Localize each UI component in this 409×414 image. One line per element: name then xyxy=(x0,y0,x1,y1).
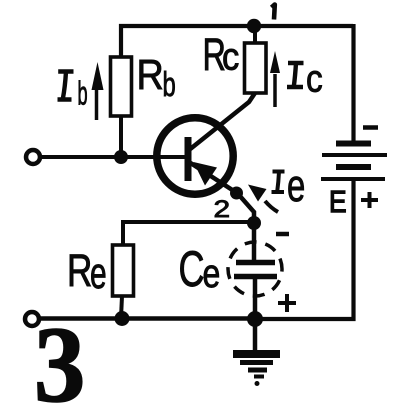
node 2 dot xyxy=(230,187,243,200)
svg-text:c: c xyxy=(222,35,239,78)
svg-text:e: e xyxy=(203,251,221,296)
svg-text:e: e xyxy=(90,248,107,297)
terminal input base xyxy=(26,150,40,164)
svg-text:R: R xyxy=(67,245,92,296)
capacitor Ce plate top xyxy=(236,260,275,266)
arrow Ib xyxy=(92,62,104,120)
wire Re bottom xyxy=(121,296,122,318)
label plus capacitor xyxy=(278,294,296,312)
svg-text:E: E xyxy=(329,185,347,219)
battery E plate long 1 xyxy=(322,153,387,157)
terminal input bottom xyxy=(25,312,39,326)
transistor Q1 circle xyxy=(157,118,233,194)
emitter arrowhead xyxy=(194,162,218,186)
label Ce xyxy=(179,242,221,297)
capacitor Ce plate bottom xyxy=(234,274,277,280)
resistor Re xyxy=(113,245,134,296)
label minus battery xyxy=(363,125,378,130)
transistor base bar xyxy=(185,137,192,181)
label plus battery xyxy=(361,192,378,208)
label Ic xyxy=(287,58,323,100)
ground bar 2 xyxy=(240,360,273,365)
resistor Rc xyxy=(245,43,267,93)
wire collector xyxy=(189,93,255,150)
battery E plate short 2 xyxy=(336,164,371,170)
arrow Ie curved xyxy=(248,185,278,213)
wire base input xyxy=(40,155,186,159)
wire top rail xyxy=(121,26,353,57)
wire Rc top xyxy=(253,26,257,43)
label Ie xyxy=(272,161,306,211)
svg-text:b: b xyxy=(163,66,176,104)
svg-text:e: e xyxy=(287,161,305,211)
ground stem xyxy=(253,319,258,351)
resistor Rb xyxy=(111,57,132,116)
wire Re top xyxy=(123,222,254,247)
wire capacitor top xyxy=(252,223,257,260)
junction dot emitter xyxy=(247,216,261,230)
junction dot ground xyxy=(247,311,263,327)
arrow Ic xyxy=(270,51,280,107)
wire capacitor bottom xyxy=(253,279,258,319)
svg-text:2: 2 xyxy=(214,195,231,223)
label minus capacitor xyxy=(276,232,289,237)
ground bar 3 xyxy=(248,368,267,373)
node 1 dot xyxy=(247,19,261,33)
label Re xyxy=(67,245,107,298)
svg-text:R: R xyxy=(137,52,164,98)
svg-text:c: c xyxy=(306,58,323,100)
wire emitter to junction xyxy=(239,195,254,219)
label node 1 xyxy=(272,5,275,20)
junction dot base xyxy=(114,150,128,164)
wire right rail upper xyxy=(351,24,355,143)
capacitor dashed circle xyxy=(220,234,289,303)
wire right rail lower xyxy=(253,179,354,319)
battery E plate short 1 xyxy=(336,141,371,147)
label Rc xyxy=(203,31,240,80)
svg-text:3: 3 xyxy=(34,305,85,414)
label Ib xyxy=(58,72,88,112)
svg-text:b: b xyxy=(78,75,88,112)
wire emitter xyxy=(189,162,237,193)
junction dot bottom-left xyxy=(115,311,130,326)
ground dot xyxy=(255,381,260,386)
svg-text:C: C xyxy=(179,242,205,297)
battery E plate long 2 xyxy=(321,177,385,181)
wire Rb bottom xyxy=(119,116,123,157)
ground bar 4 xyxy=(254,375,264,379)
label Rb xyxy=(137,52,176,104)
wire bottom rail xyxy=(39,316,255,321)
ground bar 1 xyxy=(233,350,280,358)
